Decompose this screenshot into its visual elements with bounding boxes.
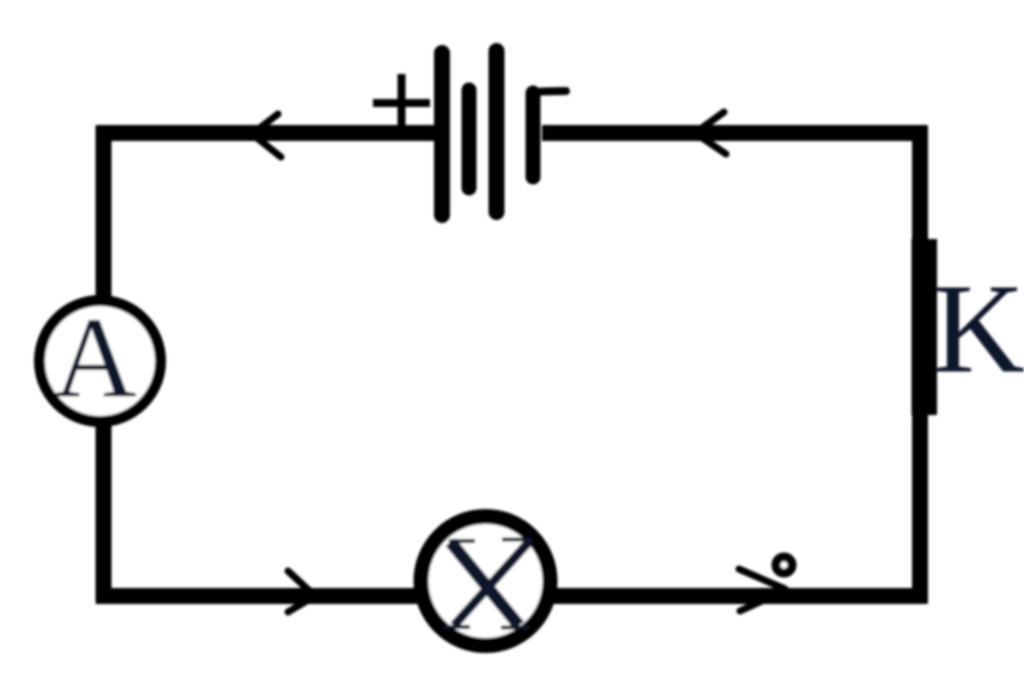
arrow on bottom-left wire (current direction, pointing right)	[288, 571, 315, 612]
arrow on top-left wire (current direction, pointing left)	[252, 114, 281, 157]
wire bottom-left horizontal segment	[96, 588, 418, 604]
wire top-left horizontal segment	[96, 125, 434, 141]
lamp X circle	[421, 517, 550, 646]
lamp label X	[444, 540, 532, 628]
arrow on bottom-right wire (current direction, pointing right)	[739, 569, 785, 589]
wire bottom-right horizontal segment	[553, 588, 927, 604]
wire top-right horizontal segment	[542, 125, 927, 141]
wire left vertical lower segment	[96, 424, 112, 603]
svg-text:K: K	[933, 258, 1024, 400]
battery B1 plate 1 (long, positive)	[434, 53, 450, 215]
battery B1 plate 2 (short, negative)	[462, 90, 477, 188]
wire right vertical segment	[912, 126, 928, 604]
wire left vertical upper segment	[96, 126, 112, 299]
small circle marker near bottom-right arrow	[776, 557, 792, 573]
battery B1 plate 3 (long, positive)	[489, 51, 505, 212]
switch K bar	[912, 239, 938, 415]
battery minus terminal dash	[541, 87, 566, 96]
ammeter A1 circle	[40, 301, 161, 422]
battery B1 plate 4 (short, negative)	[526, 93, 541, 177]
arrow on top-right wire (current direction, pointing left)	[695, 112, 726, 154]
battery plus terminal label	[373, 74, 430, 127]
svg-text:A: A	[53, 295, 136, 422]
